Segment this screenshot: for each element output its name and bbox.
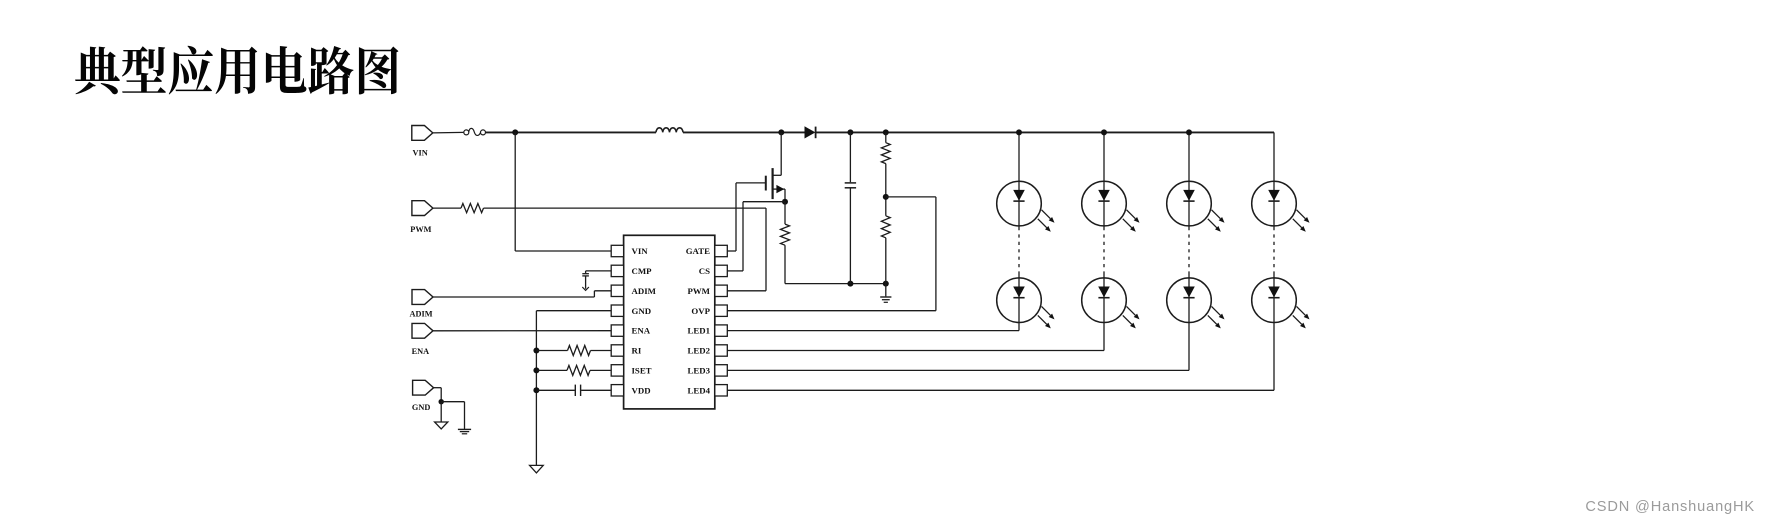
resistor R-PWM bbox=[461, 204, 484, 213]
svg-text:GND: GND bbox=[632, 306, 652, 316]
LED D1b bbox=[997, 278, 1055, 328]
svg-text:ENA: ENA bbox=[412, 347, 430, 356]
wire LED string 4 vertical bbox=[1273, 132, 1275, 322]
svg-text:LED3: LED3 bbox=[688, 366, 711, 376]
ground (open triangle) bus bbox=[530, 465, 544, 473]
LED D4a bbox=[1252, 181, 1310, 232]
junction dot VIN bus bbox=[512, 129, 518, 135]
wire ground bus vertical bbox=[535, 311, 537, 465]
ground (earth) input bbox=[441, 402, 471, 434]
LED D2a bbox=[1082, 181, 1140, 232]
wire LED string 2 vertical bbox=[1103, 132, 1105, 322]
wire GATE pin to gate bbox=[727, 250, 736, 252]
inductor L1 bbox=[656, 128, 683, 133]
wire OVP vertical bbox=[935, 197, 937, 311]
wire ground rail bbox=[785, 283, 886, 285]
wire LED2 return bbox=[727, 322, 1104, 351]
LED D3b bbox=[1167, 278, 1225, 328]
ground (earth) main bbox=[880, 284, 891, 303]
svg-text:VIN: VIN bbox=[632, 246, 649, 256]
junction dot divider mid bbox=[883, 194, 889, 200]
svg-text:LED1: LED1 bbox=[688, 326, 711, 336]
resistor R-sense bbox=[781, 224, 790, 245]
svg-text:LED4: LED4 bbox=[688, 385, 711, 395]
junction dot output cap bbox=[847, 129, 853, 135]
capacitor C-out bbox=[845, 132, 856, 283]
LED D3a bbox=[1167, 181, 1225, 232]
op-amp U1 (LED driver IC) bbox=[611, 235, 727, 409]
wire CS to pin bbox=[727, 270, 743, 272]
wire ADIM net bbox=[433, 291, 611, 297]
svg-text:ISET: ISET bbox=[632, 366, 652, 376]
wire GND connector bbox=[433, 388, 441, 402]
title text 典型应用电路图 bbox=[75, 46, 398, 95]
LED D1a bbox=[997, 181, 1055, 232]
wire source to Rs bbox=[784, 202, 786, 224]
resistor R-RI bbox=[536, 346, 611, 356]
fuse F1 bbox=[433, 128, 486, 135]
svg-text:VIN: VIN bbox=[413, 149, 428, 158]
watermark text bbox=[1585, 499, 1755, 515]
connector PWM bbox=[410, 201, 433, 234]
resistor divider R-ovp1/R-ovp2 bbox=[881, 132, 890, 283]
wire LED4 return bbox=[727, 322, 1274, 390]
svg-text:PWM: PWM bbox=[688, 286, 711, 296]
svg-text:GATE: GATE bbox=[686, 246, 710, 256]
transistor Q1 (N-MOSFET) bbox=[736, 132, 785, 251]
svg-text:ENA: ENA bbox=[632, 326, 651, 336]
junction dot VDD bbox=[533, 387, 539, 393]
svg-text:OVP: OVP bbox=[691, 306, 710, 316]
wire PWM to pin bbox=[727, 290, 766, 292]
connector VIN bbox=[412, 126, 433, 158]
wire PWM vertical bbox=[765, 208, 767, 291]
diode D1 bbox=[805, 126, 816, 138]
wire top rail segment 1 bbox=[486, 131, 656, 133]
junction dot LED string 2 bbox=[1101, 129, 1107, 135]
svg-text:ADIM: ADIM bbox=[410, 310, 433, 319]
wire VIN bus vertical bbox=[514, 132, 516, 251]
svg-text:RI: RI bbox=[632, 346, 642, 356]
wire LED3 return bbox=[727, 322, 1189, 370]
junction dot divider bottom bbox=[883, 281, 889, 287]
svg-text:PWM: PWM bbox=[410, 225, 431, 234]
wire OVP to pin bbox=[727, 310, 936, 312]
wire CS vertical bbox=[742, 202, 744, 271]
wire top rail segment 2 bbox=[683, 131, 805, 133]
resistor R-ISET bbox=[536, 365, 611, 375]
svg-text:ADIM: ADIM bbox=[632, 286, 657, 296]
junction dot cap bottom bbox=[847, 281, 853, 287]
connector ADIM bbox=[410, 290, 434, 319]
junction dot divider top bbox=[883, 129, 889, 135]
wire GND pin bbox=[536, 310, 611, 312]
wire ENA net bbox=[433, 330, 611, 332]
capacitor C-vdd bbox=[536, 385, 611, 396]
ground (open triangle) input bbox=[435, 402, 448, 429]
junction dot MOSFET drain bbox=[778, 129, 784, 135]
wire VIN bus to pin bbox=[515, 250, 611, 252]
wire CS horizontal bbox=[743, 201, 785, 203]
junction dot GND bbox=[439, 399, 444, 404]
junction dot ISET bbox=[533, 367, 539, 373]
connector ENA bbox=[412, 323, 433, 356]
wire LED1 return bbox=[727, 322, 1019, 331]
junction dot LED string 1 bbox=[1016, 129, 1022, 135]
wire top rail segment 3 bbox=[816, 131, 1274, 133]
wire LED string 3 vertical bbox=[1188, 132, 1190, 322]
junction dot LED string 3 bbox=[1186, 129, 1192, 135]
wire OVP horizontal top bbox=[886, 196, 936, 198]
svg-text:CS: CS bbox=[699, 266, 710, 276]
svg-text:LED2: LED2 bbox=[688, 346, 711, 356]
svg-text:CSDN @HanshuangHK: CSDN @HanshuangHK bbox=[1585, 499, 1755, 515]
svg-text:GND: GND bbox=[412, 403, 430, 412]
svg-text:VDD: VDD bbox=[632, 385, 651, 395]
connector GND bbox=[412, 380, 434, 412]
wire PWM horizontal bbox=[484, 207, 767, 209]
junction dot source/CS bbox=[782, 199, 788, 205]
capacitor C-cmp with arrow ground bbox=[582, 271, 611, 291]
svg-text:CMP: CMP bbox=[632, 266, 653, 276]
wire PWM connector to resistor bbox=[433, 207, 461, 209]
junction dot RI bbox=[533, 348, 539, 354]
LED D4b bbox=[1252, 278, 1310, 328]
wire LED string 1 vertical bbox=[1018, 132, 1020, 322]
wire Rs to ground rail bbox=[784, 245, 786, 283]
LED D2b bbox=[1082, 278, 1140, 328]
